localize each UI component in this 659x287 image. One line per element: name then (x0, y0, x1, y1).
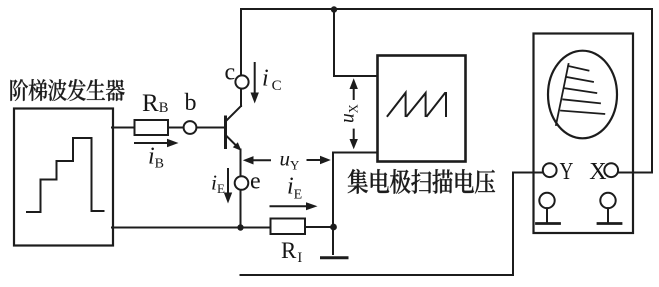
resistor RB (135, 120, 169, 135)
svg-text:c: c (225, 60, 236, 86)
voltage arrow uY right (308, 159, 321, 161)
wire sawtooth bottom stub (333, 153, 377, 255)
ground (322, 256, 348, 259)
node emitter junction (237, 224, 243, 230)
label collector sweep voltage (Chinese) (348, 169, 495, 194)
transistor Q1 emitter lead with arrow (227, 136, 236, 145)
terminal X circle (604, 163, 618, 177)
current arrow iB (135, 142, 167, 144)
wire generator bottom to emitter junction (112, 227, 241, 229)
node b circle (184, 121, 197, 134)
terminal Y circle (543, 163, 557, 177)
node c circle (235, 75, 248, 88)
oscilloscope screen (548, 51, 617, 139)
wire RB to node b (168, 127, 184, 129)
current arrow iE through RI (271, 205, 307, 207)
staircase generator box (14, 109, 113, 246)
voltage arrow uX down (353, 130, 355, 139)
wire emitter junction to RI (241, 227, 271, 229)
wire bottom rail to Y input (241, 173, 544, 276)
ground terminal left (539, 193, 554, 208)
current arrow iE emitter (227, 169, 229, 193)
wire emitter vertical (240, 150, 242, 177)
transistor Q1 collector lead (227, 106, 242, 121)
transistor Q1 base bar (224, 116, 227, 150)
oscilloscope body (534, 34, 634, 234)
wire collector vertical (240, 9, 242, 76)
wire RI to ground junction (305, 226, 334, 228)
wire sawtooth top feed (334, 9, 377, 76)
svg-text:b: b (185, 90, 197, 116)
ground terminal right (600, 193, 615, 208)
svg-text:e: e (250, 168, 261, 194)
wire node b to base (196, 127, 224, 129)
svg-text:X: X (589, 159, 606, 185)
voltage arrow uY left (254, 159, 271, 161)
sawtooth generator box (378, 56, 466, 162)
svg-text:Y: Y (560, 158, 574, 185)
resistor R1 (271, 219, 306, 235)
staircase waveform (27, 138, 104, 212)
wire top rail collector to X input (241, 9, 652, 173)
wire base from generator box (112, 127, 134, 129)
node e circle (235, 176, 249, 190)
sawtooth waveform (388, 93, 447, 116)
voltage arrow uX up (353, 89, 355, 99)
current arrow iC (254, 63, 256, 93)
label staircase generator (Chinese) (10, 79, 124, 101)
screen trace curves (556, 64, 604, 125)
node RI right junction (330, 224, 337, 231)
node junction top rail (331, 6, 337, 12)
